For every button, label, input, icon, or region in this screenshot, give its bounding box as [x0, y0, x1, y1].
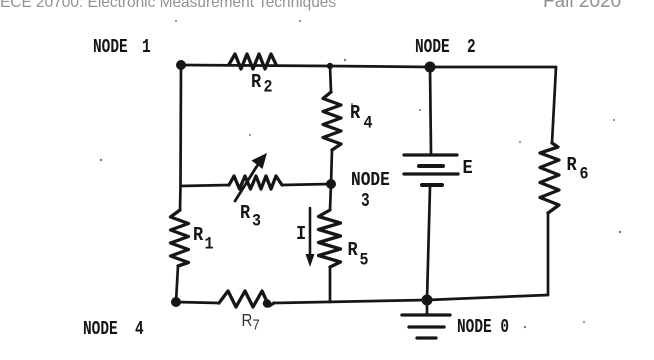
node C label NODE 3	[351, 171, 390, 191]
battery E plate 1 long	[404, 153, 457, 156]
battery E plate 2 short	[419, 164, 443, 168]
junction blob right of R7	[263, 299, 271, 307]
wire: right rail lower	[547, 213, 550, 295]
label R4 subscript	[364, 115, 373, 132]
node C label NODE 3 number	[361, 192, 370, 212]
node 4 junction dot	[171, 297, 181, 307]
node B label NODE 2	[415, 38, 476, 58]
header term	[543, 0, 621, 11]
label R4	[350, 104, 360, 124]
wire: R5 to bottom rail	[329, 267, 332, 302]
label E battery	[463, 159, 473, 179]
node E label NODE 0	[457, 318, 509, 338]
wire: node 3 to R5	[330, 184, 331, 210]
label R2 subscript	[264, 79, 273, 96]
resistor R1	[171, 210, 189, 266]
label I current	[296, 225, 306, 245]
label R7	[242, 312, 253, 329]
label R1 subscript	[205, 236, 214, 253]
label R6	[567, 156, 577, 176]
ground	[402, 300, 450, 338]
resistor R5	[319, 210, 341, 267]
wire: battery branch top	[430, 67, 431, 153]
resistor R7	[219, 291, 274, 307]
resistor R2	[229, 54, 276, 69]
node 0 junction dot	[422, 295, 433, 306]
label R3 subscript	[252, 213, 261, 230]
arrow of potentiometer R3	[235, 153, 267, 201]
wire: middle horizontal R3 branch right	[282, 184, 331, 185]
label R1	[193, 226, 203, 246]
node 1 junction dot	[176, 60, 186, 70]
junction dot top of R4 branch	[327, 63, 333, 69]
wire: battery branch bottom	[427, 187, 430, 300]
wire: R4 to node 3	[331, 150, 332, 184]
battery E plate 4 short	[422, 183, 442, 187]
node 2 junction dot	[425, 62, 436, 73]
wire: bottom rail right	[274, 295, 548, 303]
wire: left rail upper segment	[180, 65, 181, 210]
label R7 subscript	[253, 317, 260, 332]
resistor R6	[540, 143, 559, 213]
header course title	[0, 0, 336, 10]
wire: middle vertical top (node2 branch top)	[330, 66, 331, 92]
resistor R3	[229, 176, 282, 189]
wire: bottom rail left	[176, 302, 219, 303]
node A label NODE 1	[93, 38, 128, 58]
node 3 junction dot	[326, 179, 336, 189]
current arrow I	[306, 208, 315, 267]
label R5 subscript	[360, 252, 369, 269]
wire: left rail lower segment	[176, 266, 178, 302]
wire: right rail upper	[552, 67, 556, 143]
scan noise specks	[100, 20, 621, 328]
battery E plate 3 long	[404, 172, 458, 175]
label R5	[348, 241, 358, 261]
node label NODE 1 digit	[142, 38, 151, 58]
label R2	[251, 73, 261, 93]
wire: middle horizontal R3 branch left	[181, 185, 230, 186]
wire: top rail node1 to node2 to top-right corner	[181, 65, 556, 67]
node D label NODE 4	[83, 320, 144, 340]
resistor R4	[323, 92, 341, 150]
label R6 subscript	[580, 166, 589, 183]
label R3	[240, 204, 250, 224]
